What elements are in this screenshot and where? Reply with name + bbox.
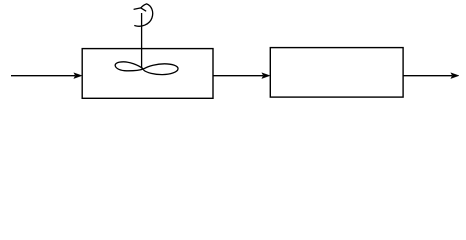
agitator shaft	[141, 13, 143, 69]
outlet arrowhead	[451, 73, 459, 79]
connecting wire	[213, 75, 263, 77]
inlet arrowhead	[74, 73, 82, 79]
rotation arrow	[135, 4, 153, 26]
inlet wire	[11, 75, 75, 77]
vessel V1 (stirred tank)	[82, 49, 213, 99]
vessel V2	[270, 48, 403, 98]
rotation arrowhead	[134, 8, 146, 11]
connecting arrowhead	[262, 73, 270, 79]
propeller	[115, 62, 178, 75]
outlet wire	[403, 75, 452, 77]
